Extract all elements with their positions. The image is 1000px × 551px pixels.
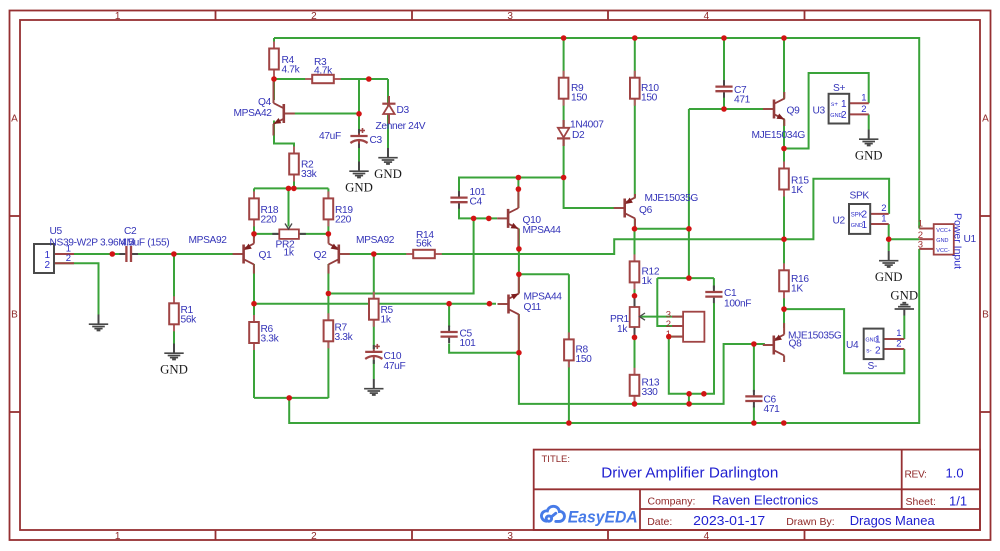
junction at 753.9,344: [751, 341, 757, 347]
wire PR1 wiper to U6 pin3: [641, 316, 683, 318]
junction at 274,79: [271, 76, 277, 82]
wire R3 run: [274, 78, 388, 80]
wire R11 run: [518, 177, 563, 179]
junction at 753.9,423: [751, 420, 757, 426]
wire PR2 left: [254, 233, 279, 235]
resistor R8: [568, 332, 570, 339]
title block: [534, 450, 980, 530]
connector U5 (NS39-W2P input): [54, 253, 74, 255]
svg-text:3.3k: 3.3k: [335, 332, 354, 343]
wire R18 column: [253, 188, 255, 238]
wire C10 bottom: [373, 360, 375, 379]
wire Q6 collector link: [635, 228, 689, 230]
transistor Q4: [284, 113, 295, 115]
svg-text:1N4007: 1N4007: [570, 120, 604, 131]
svg-text:REV:: REV:: [905, 470, 927, 481]
svg-text:100nF: 100nF: [724, 299, 751, 310]
svg-text:Dragos Manea: Dragos Manea: [850, 513, 936, 528]
wire C4 bottom to Q10 base: [459, 209, 497, 219]
wire x689 column: [688, 109, 690, 278]
capacitor C6: [753, 390, 755, 396]
svg-text:471: 471: [734, 95, 751, 106]
svg-text:1: 1: [861, 220, 867, 231]
wire Q2 collector line: [328, 218, 473, 293]
svg-text:Q1: Q1: [259, 250, 273, 261]
wire Q11 emitter link: [519, 273, 569, 275]
wire U4 pin1 gnd: [903, 316, 905, 340]
wire bottom rail: [289, 249, 919, 423]
wire bias rail: [254, 187, 328, 189]
svg-text:3: 3: [918, 240, 923, 251]
capacitor C5: [448, 326, 450, 332]
junction at 703.9,393.8: [701, 391, 707, 397]
wire Q6 collector: [634, 219, 636, 229]
svg-text:1: 1: [881, 214, 886, 225]
junction at 368.8,79: [366, 76, 372, 82]
svg-text:150: 150: [571, 93, 588, 104]
svg-text:56k: 56k: [181, 315, 198, 326]
svg-text:MPSA42: MPSA42: [234, 108, 273, 119]
resistor R10: [634, 71, 636, 78]
junction at 289.2,397.9: [286, 395, 292, 401]
resistor R1: [173, 296, 175, 303]
wire R8 column: [568, 274, 570, 423]
junction at 518.9,274.3: [516, 272, 522, 278]
wire V+ top rail: [274, 38, 919, 229]
wire R9 D2 column: [564, 38, 615, 208]
junction at 724,38: [721, 35, 727, 41]
svg-text:Power Input: Power Input: [952, 213, 964, 269]
wire U6 pin1 down: [669, 303, 714, 394]
svg-text:1: 1: [841, 99, 847, 110]
resistor R3: [305, 78, 312, 80]
resistor R15: [783, 162, 785, 169]
junction at 518.4,177.5: [516, 175, 522, 181]
diode D2 (1N4007): [562, 120, 564, 128]
junction at 518.9,248.9: [516, 246, 522, 252]
svg-text:4: 4: [704, 531, 710, 542]
resistor R6: [253, 315, 255, 322]
wire Q9 collector: [783, 38, 785, 100]
wire U2 gnd link: [889, 238, 920, 240]
svg-text:4: 4: [704, 11, 710, 22]
junction at 634.8,38: [632, 35, 638, 41]
svg-text:1.0: 1.0: [946, 466, 964, 481]
wire stub 689: [688, 394, 690, 404]
wire U6 pin1: [669, 336, 683, 338]
junction at 449.1,303.7: [446, 301, 452, 307]
svg-text:Raven Electronics: Raven Electronics: [712, 493, 818, 508]
svg-text:GND: GND: [890, 289, 918, 303]
svg-text:U3: U3: [813, 106, 826, 117]
svg-text:2: 2: [896, 339, 901, 350]
resistor R2: [293, 147, 295, 154]
svg-text:VCC+: VCC+: [936, 228, 951, 234]
svg-text:Drawn By:: Drawn By:: [786, 516, 834, 528]
potentiometer PR2: [272, 233, 279, 235]
junction at 254,303.7: [251, 301, 257, 307]
svg-text:2: 2: [311, 531, 317, 542]
svg-text:C1: C1: [724, 288, 737, 299]
wire R10 column: [634, 38, 636, 199]
svg-text:MJE15035G: MJE15035G: [788, 331, 842, 342]
wire input segment: [54, 253, 121, 255]
svg-text:2: 2: [44, 260, 50, 271]
svg-text:4.7k: 4.7k: [282, 65, 301, 76]
wire U5 pin2 to gnd: [54, 263, 99, 314]
junction at 563.6,38: [561, 35, 567, 41]
wire U3 pin2 gnd: [868, 114, 870, 129]
ground U4 GND: [903, 309, 905, 316]
svg-text:MPSA44: MPSA44: [523, 225, 562, 236]
wire R2 bottom: [293, 174, 295, 189]
svg-text:S-: S-: [868, 361, 878, 372]
potentiometer PR1: [634, 296, 636, 307]
svg-text:Q2: Q2: [314, 250, 328, 261]
ground U3 GND: [868, 130, 870, 140]
resistor R13: [634, 368, 636, 375]
junction at 784,38: [781, 35, 787, 41]
junction at 688.9,278.1: [686, 275, 692, 281]
polarized capacitor C3: [358, 129, 360, 134]
junction at 254,233.9: [251, 231, 257, 237]
svg-text:C4: C4: [470, 197, 483, 208]
EasyEDA logo: [541, 506, 564, 521]
transistor Q11: [498, 303, 509, 305]
svg-text:150: 150: [641, 93, 658, 104]
junction at 328.4,233.9: [326, 231, 332, 237]
svg-text:1/1: 1/1: [949, 494, 967, 509]
svg-text:1: 1: [115, 531, 121, 542]
svg-text:MJE15035G: MJE15035G: [645, 193, 699, 204]
junction at 288.5,188.4: [286, 186, 292, 192]
svg-text:4.7k: 4.7k: [314, 66, 333, 77]
svg-text:D2: D2: [572, 130, 585, 141]
svg-text:GND: GND: [875, 270, 903, 284]
transistor Q1: [233, 253, 244, 255]
svg-text:A: A: [11, 114, 18, 125]
svg-text:U4: U4: [846, 340, 859, 351]
transistor Q2: [339, 253, 350, 255]
junction at 489.4,303.7: [487, 301, 493, 307]
capacitor C1: [713, 286, 715, 292]
svg-text:D3: D3: [397, 105, 410, 116]
capacitor C4: [458, 191, 460, 197]
wire C7 top: [723, 38, 725, 84]
junction at 634.5,403.9: [632, 401, 638, 407]
svg-text:MPSA92: MPSA92: [356, 235, 395, 246]
wire Q1 collector column: [253, 264, 255, 398]
wire input segment 2: [137, 253, 244, 255]
junction at 784,239.2: [781, 236, 787, 242]
resistor R18: [253, 191, 255, 198]
svg-text:Q4: Q4: [258, 97, 272, 108]
svg-text:MPSA44: MPSA44: [524, 292, 563, 303]
wire S- loop: [784, 309, 904, 373]
svg-text:150: 150: [576, 354, 593, 365]
svg-text:C2: C2: [124, 226, 137, 237]
svg-text:2: 2: [861, 104, 866, 115]
junction at 784,148.5: [781, 146, 787, 152]
connector U4 (S-): [884, 338, 905, 340]
svg-text:MJE15034G: MJE15034G: [752, 130, 806, 141]
wire Q10 collector: [517, 178, 519, 209]
svg-text:2023-01-17: 2023-01-17: [693, 513, 765, 528]
junction at 488.8,218.4: [486, 216, 492, 222]
svg-text:1: 1: [918, 219, 923, 230]
junction at 293.9,188.4: [291, 186, 297, 192]
junction at 473.6,218.4: [471, 216, 477, 222]
ground C3 GND: [358, 162, 360, 172]
svg-text:A: A: [982, 114, 989, 125]
capacitor C7: [723, 80, 725, 86]
svg-text:101: 101: [460, 338, 477, 349]
wire R5 column: [373, 254, 375, 349]
junction at 888.7,239.2: [886, 236, 892, 242]
junction at 784,309.1: [781, 306, 787, 312]
junction at 568.9,423: [566, 420, 572, 426]
svg-text:C3: C3: [370, 135, 383, 146]
svg-text:Sheet:: Sheet:: [906, 496, 936, 508]
wire U6 pin2 loop: [657, 278, 683, 326]
svg-text:Driver Amplifier Darlington: Driver Amplifier Darlington: [601, 466, 778, 482]
connector U2 (SPK): [870, 213, 889, 215]
svg-text:Zenner 24V: Zenner 24V: [376, 121, 426, 132]
wire C6 top: [753, 344, 755, 392]
wire S+ loop: [784, 73, 869, 149]
svg-text:MPSA92: MPSA92: [189, 235, 228, 246]
svg-text:2: 2: [66, 253, 71, 264]
junction at 173.9,254: [171, 251, 177, 257]
svg-text:SPK: SPK: [850, 191, 870, 202]
svg-text:1k: 1k: [642, 276, 653, 287]
ground C10 GND: [373, 379, 375, 389]
junction at 518.9,352.7: [516, 350, 522, 356]
junction at 373.8,254: [371, 251, 377, 257]
transistor Q6: [614, 207, 625, 209]
svg-text:S+: S+: [833, 83, 845, 94]
wire R1 column: [173, 254, 175, 344]
wire Q2 collector column: [327, 264, 329, 398]
svg-text:Date:: Date:: [647, 516, 672, 528]
wire C7 bottom: [723, 95, 725, 109]
svg-text:1k: 1k: [617, 324, 628, 335]
wire R12 PR1 R13 column: [634, 229, 636, 404]
svg-text:Q6: Q6: [639, 205, 653, 216]
svg-text:B: B: [982, 310, 989, 321]
resistor R9: [563, 71, 565, 78]
svg-text:2: 2: [841, 110, 847, 121]
wire darlington column: [518, 229, 520, 294]
wire U2 pin1 gnd: [888, 224, 890, 251]
junction at 634.5,295.8: [632, 293, 638, 299]
junction at 689.1,403.9: [686, 401, 692, 407]
svg-text:3.3k: 3.3k: [261, 334, 280, 345]
svg-text:4.5uF (155): 4.5uF (155): [121, 238, 170, 249]
junction at 688.9,228.8: [686, 226, 692, 232]
junction at 724,109: [721, 106, 727, 112]
svg-text:s-: s-: [866, 347, 871, 354]
svg-text:33k: 33k: [301, 169, 318, 180]
svg-text:GND: GND: [855, 149, 883, 163]
wire C1 top lead: [713, 278, 715, 288]
wire PR2 right: [299, 233, 329, 235]
wire Q4 base: [284, 113, 359, 115]
svg-text:GND: GND: [374, 167, 402, 181]
wire feedback line: [254, 303, 496, 305]
svg-text:EasyEDA: EasyEDA: [568, 507, 638, 526]
wire Q9 base line: [689, 108, 765, 110]
wire R4 column: [273, 38, 275, 100]
transistor Q10: [497, 217, 508, 219]
svg-text:s+: s+: [831, 101, 838, 108]
svg-text:1k: 1k: [284, 248, 295, 259]
wire C3 top: [358, 79, 360, 131]
svg-text:Q11: Q11: [524, 302, 542, 313]
svg-text:2: 2: [861, 210, 867, 221]
svg-text:47uF: 47uF: [319, 131, 341, 142]
svg-text:Company:: Company:: [648, 496, 696, 508]
svg-text:220: 220: [261, 215, 278, 226]
svg-text:Q9: Q9: [787, 106, 801, 117]
component U6 (3-pin box): [672, 316, 683, 318]
wire main line: [339, 239, 784, 254]
wire SPK loop: [784, 179, 889, 240]
junction at 689.1,393.8: [686, 391, 692, 397]
resistor R5: [373, 292, 375, 299]
svg-text:GND: GND: [160, 363, 188, 377]
junction at 634.5,337.4: [632, 335, 638, 341]
polarized capacitor C10: [373, 345, 375, 350]
svg-text:330: 330: [642, 387, 659, 398]
svg-text:56k: 56k: [416, 239, 433, 250]
junction at 518.4,189.1: [516, 186, 522, 192]
svg-text:2: 2: [881, 203, 886, 214]
junction at 668.8,336.6: [666, 334, 672, 340]
ground D3 GND: [387, 148, 389, 158]
resistor R14: [406, 253, 413, 255]
svg-text:U1: U1: [964, 234, 977, 245]
capacitor C2: [119, 253, 125, 255]
svg-text:TITLE:: TITLE:: [542, 454, 571, 465]
svg-text:47uF: 47uF: [384, 361, 406, 372]
svg-text:1K: 1K: [791, 185, 803, 196]
svg-text:3: 3: [507, 11, 513, 22]
svg-text:1: 1: [875, 335, 881, 346]
ground U2 GND: [888, 251, 890, 261]
ground R1 GND: [173, 344, 175, 354]
ground U5 pin2 GND: [98, 315, 100, 325]
wire R6 R7 bottom: [254, 397, 328, 399]
resistor R4: [273, 42, 275, 49]
svg-text:220: 220: [335, 215, 352, 226]
junction at 783.8,423: [781, 420, 787, 426]
resistor R16: [783, 263, 785, 270]
resistor R7: [327, 313, 329, 320]
svg-text:471: 471: [764, 404, 781, 415]
svg-text:1: 1: [115, 11, 121, 22]
svg-text:1K: 1K: [791, 284, 803, 295]
wire Q11 collector run: [519, 314, 765, 404]
wire C4 top: [459, 178, 518, 193]
zener diode D3: [388, 96, 390, 104]
svg-text:U5: U5: [50, 226, 63, 237]
wire D3 column: [387, 79, 389, 148]
connector U3 (S+): [849, 102, 869, 104]
wire R19 column: [327, 188, 329, 238]
resistor R12: [634, 254, 636, 261]
svg-text:GND: GND: [936, 238, 948, 244]
connector U1 (Power Input): [919, 228, 934, 230]
svg-text:3: 3: [507, 531, 513, 542]
svg-text:GND: GND: [345, 181, 373, 195]
svg-text:1: 1: [861, 93, 866, 104]
svg-text:2: 2: [311, 11, 317, 22]
junction at 359,113.8: [356, 111, 362, 117]
wire Q9 emitter column: [783, 119, 785, 329]
transistor Q9: [763, 108, 774, 110]
wire node C1 top: [657, 277, 714, 279]
svg-text:B: B: [11, 310, 18, 321]
wire Q4 emitter to R2: [274, 121, 294, 155]
junction at 112.3,254: [110, 251, 116, 257]
wire C6 bottom: [753, 406, 755, 423]
svg-text:U2: U2: [833, 216, 846, 227]
svg-text:2: 2: [875, 345, 881, 356]
wire PR2 wiper: [288, 188, 290, 226]
svg-text:VCC-: VCC-: [936, 248, 950, 254]
wire C3 bottom: [358, 148, 360, 162]
svg-text:1: 1: [896, 328, 901, 339]
transistor Q8: [763, 344, 774, 346]
junction at 328.4,293.5: [326, 291, 332, 297]
svg-text:1k: 1k: [381, 315, 392, 326]
wire C5 top: [448, 304, 450, 327]
junction at 563.6,177.5: [561, 175, 567, 181]
resistor R19: [327, 191, 329, 198]
junction at 634.5,228.8: [632, 226, 638, 232]
wire C5 bottom: [449, 344, 519, 353]
